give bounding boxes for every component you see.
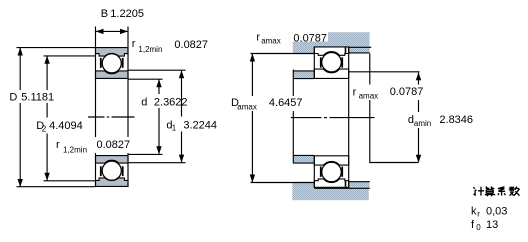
dimension D: dim line with arrows bbox=[19, 48, 21, 91]
left face line of bearing bbox=[95, 27, 97, 138]
svg-text:1,2min: 1,2min bbox=[138, 45, 162, 54]
dimension Da: dim line with arrows bbox=[251, 54, 253, 97]
label d 2.3622 bbox=[139, 94, 188, 108]
svg-text:d: d bbox=[141, 96, 147, 108]
svg-text:5.1181: 5.1181 bbox=[21, 92, 54, 104]
housing shoulder block lower-left bbox=[292, 183, 314, 188]
svg-text:3.2244: 3.2244 bbox=[183, 119, 217, 131]
shaft cut edge (left) bbox=[292, 70, 294, 97]
housing bore line right of bearing bbox=[349, 46, 372, 48]
svg-text:2.3622: 2.3622 bbox=[154, 96, 188, 108]
svg-text:0.0827: 0.0827 bbox=[174, 39, 208, 51]
shaft shoulder bottom line lower-left bbox=[293, 162, 314, 164]
bearing upper section (left drawing): outer ring, ball, inner ring bbox=[96, 48, 129, 79]
shaft seat line upper-left bbox=[293, 78, 314, 80]
dimension da: extension line upper bbox=[349, 71, 420, 73]
centerline (right drawing axis) bbox=[291, 117, 322, 119]
housing slab below bearing bbox=[292, 188, 369, 200]
snap ring groove notch (lower outer ring) bbox=[345, 181, 347, 187]
dimension da: dim line with arrows bbox=[418, 73, 420, 86]
dimension B: dim line with arrows bbox=[96, 30, 129, 32]
housing recess step upper-right bbox=[349, 47, 370, 53]
housing step lower-right bbox=[349, 182, 370, 188]
shaft shoulder top line upper-left bbox=[293, 70, 314, 72]
svg-text:r: r bbox=[256, 31, 260, 43]
svg-text:k: k bbox=[471, 206, 477, 218]
svg-text:r: r bbox=[132, 38, 136, 50]
svg-text:D: D bbox=[9, 92, 17, 104]
heading (Chinese): calculation factors bbox=[473, 187, 519, 197]
svg-text:2: 2 bbox=[42, 125, 47, 134]
housing shoulder block upper-left bbox=[293, 47, 315, 54]
dimension D2: extension lines bbox=[44, 55, 96, 57]
svg-text:0.0787: 0.0787 bbox=[293, 32, 327, 44]
housing/shaft cut edge (right) bbox=[369, 54, 371, 86]
housing shoulder line upper-left / Da extension bbox=[251, 53, 315, 55]
dimension da: extension line lower bbox=[371, 162, 419, 164]
right face line of bearing (right drawing) bbox=[348, 47, 350, 187]
svg-text:1.2205: 1.2205 bbox=[110, 8, 144, 20]
svg-text:r: r bbox=[353, 87, 357, 99]
label r1,2min 0.0827 (bottom) bbox=[53, 137, 132, 153]
housing step line lower-right bbox=[349, 181, 370, 183]
shaft shoulder band upper-left bbox=[293, 71, 314, 78]
svg-text:amax: amax bbox=[237, 103, 257, 112]
svg-text:1,2min: 1,2min bbox=[63, 145, 87, 154]
bearing lower section (left drawing) bbox=[96, 156, 129, 187]
svg-text:0.0787: 0.0787 bbox=[390, 86, 424, 98]
dimension d: dim line with arrows bbox=[158, 79, 160, 94]
svg-text:0,03: 0,03 bbox=[486, 206, 507, 218]
svg-text:2.8346: 2.8346 bbox=[439, 114, 473, 126]
housing step line upper-right bbox=[349, 52, 370, 54]
dimension d: extension lines bbox=[128, 78, 163, 80]
left face line of bearing (right drawing, lower) bbox=[313, 156, 315, 188]
centerline (left drawing axis) bbox=[88, 116, 105, 118]
svg-text:0: 0 bbox=[476, 223, 481, 232]
bearing upper section (right drawing) bbox=[314, 47, 348, 79]
label D 5.1181 bbox=[2, 91, 57, 104]
housing bar above bearing bbox=[293, 32, 370, 47]
label d1 3.2244 bbox=[164, 118, 220, 132]
svg-text:4.6457: 4.6457 bbox=[269, 97, 303, 109]
dimension d1: extension lines bbox=[128, 69, 186, 71]
dimension D2: dim line with arrows bbox=[46, 56, 48, 90]
label D2 4.4094 bbox=[32, 119, 89, 134]
label halo over housing bar bbox=[288, 31, 329, 42]
label ramax 0.0787 (middle) bbox=[350, 85, 422, 101]
svg-text:0.0827: 0.0827 bbox=[97, 139, 131, 151]
housing shoulder line lower-left / Da extension bbox=[251, 182, 315, 184]
left face line of bearing (right drawing, upper) bbox=[313, 47, 315, 79]
svg-text:1: 1 bbox=[172, 124, 177, 133]
svg-text:amax: amax bbox=[261, 37, 281, 46]
svg-text:amin: amin bbox=[414, 119, 431, 128]
bearing lower section (right drawing) bbox=[314, 156, 348, 188]
svg-text:13: 13 bbox=[486, 219, 498, 231]
snap ring groove notch (upper outer ring) bbox=[345, 47, 347, 53]
shaft seat line lower-left bbox=[293, 154, 314, 156]
svg-text:r: r bbox=[477, 210, 480, 219]
dimension D: extension lines bbox=[17, 47, 96, 49]
label damin 2.8346 bbox=[405, 113, 478, 129]
dimension d1: dim line with arrows (crosses d label) bbox=[181, 70, 183, 116]
svg-text:r: r bbox=[56, 139, 60, 151]
label Damax 4.6457 bbox=[229, 97, 304, 112]
svg-text:B: B bbox=[101, 8, 108, 20]
svg-text:4.4094: 4.4094 bbox=[49, 120, 83, 132]
svg-text:amax: amax bbox=[359, 92, 379, 101]
housing bore line under bearing bbox=[314, 187, 370, 189]
shaft shoulder band lower-left bbox=[293, 156, 314, 163]
right face line of bearing bbox=[127, 27, 129, 138]
